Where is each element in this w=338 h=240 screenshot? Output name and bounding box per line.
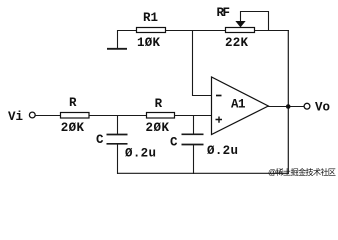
- wire feedback vertical right side: [287, 30, 289, 174]
- wire op-amp output: [268, 106, 304, 108]
- resistor R (first): [61, 113, 90, 119]
- wire R to R (second): [89, 115, 147, 117]
- resistor R1: [137, 28, 166, 33]
- svg-text:Vo: Vo: [315, 100, 330, 114]
- wiper wire: [241, 12, 269, 31]
- svg-text:R: R: [155, 97, 163, 111]
- resistor R (second): [147, 113, 175, 119]
- svg-text:Ø.2u: Ø.2u: [125, 147, 156, 161]
- wire R1 to RF: [166, 30, 226, 32]
- svg-text:22K: 22K: [225, 36, 248, 50]
- svg-text:R1: R1: [143, 11, 158, 25]
- svg-text:R: R: [69, 96, 77, 110]
- wiper arrow: [236, 21, 245, 27]
- svg-text:Ø.2u: Ø.2u: [207, 144, 238, 158]
- node junction dot output: [286, 104, 291, 109]
- wire top-left corner to R1: [117, 30, 137, 32]
- svg-text:1ØK: 1ØK: [137, 36, 160, 50]
- ground: [107, 30, 127, 49]
- pin - (inverting): [216, 95, 222, 97]
- capacitor C1: [107, 115, 128, 174]
- wire bottom rail: [117, 172, 289, 174]
- svg-text:Vi: Vi: [8, 110, 23, 124]
- node Vi terminal: [29, 112, 35, 118]
- node junction at top wire to inverting input: [193, 31, 212, 96]
- pin + (non-inverting): [216, 117, 223, 123]
- svg-text:C: C: [96, 133, 104, 147]
- svg-text:2ØK: 2ØK: [61, 121, 85, 135]
- op-amp A1: [212, 77, 269, 135]
- wire Vi to R: [35, 115, 60, 117]
- wire lead to bottom rail: [193, 145, 195, 175]
- svg-text:C: C: [170, 136, 178, 150]
- svg-text:2ØK: 2ØK: [146, 121, 170, 135]
- svg-text:A1: A1: [231, 97, 246, 111]
- svg-text:@稀土掘金技术社区: @稀土掘金技术社区: [268, 167, 336, 177]
- potentiometer RF: [226, 28, 255, 33]
- wire lead down from node: [117, 115, 119, 134]
- wire RF to feedback corner: [255, 30, 290, 32]
- wire R2 to op-amp + input: [175, 115, 212, 117]
- capacitor C2: [182, 115, 204, 174]
- node Vo terminal: [304, 103, 310, 109]
- svg-text:RF: RF: [217, 6, 231, 20]
- wire lead down from + input wire: [193, 115, 195, 134]
- wire lead to bottom rail: [117, 144, 119, 174]
